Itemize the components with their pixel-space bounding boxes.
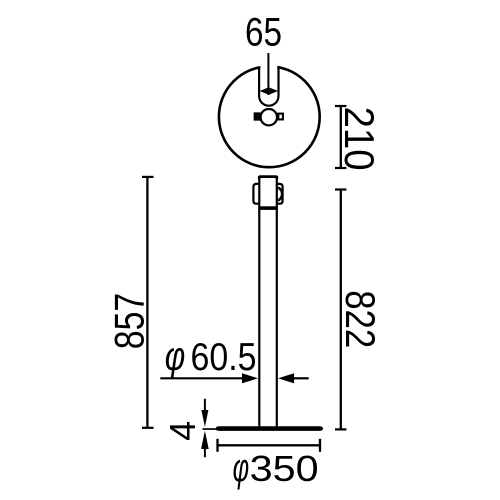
dimension 210 bottom tick (335, 167, 346, 169)
dimension 210 top tick (335, 105, 346, 107)
svg-text:4: 4 (162, 421, 203, 441)
pole upper left edge (258, 176, 260, 427)
dimension phi60.5 shaft right (293, 377, 309, 379)
dimension phi350 left tick (216, 439, 218, 452)
cassette black band (258, 206, 278, 210)
belt cassette right wing (277, 184, 283, 204)
dimension phi60.5 arrow left (242, 373, 258, 383)
pole cross-section small circle (261, 109, 277, 125)
dimension phi60.5 shaft left (160, 377, 243, 379)
slot cutout mask (260, 55, 277, 96)
belt cassette left wing (253, 184, 259, 204)
dimension 822 bottom tick (335, 428, 346, 430)
svg-text:857: 857 (105, 293, 152, 350)
arrow left of 65 dimension (260, 88, 269, 95)
dimension 857 line (146, 177, 148, 428)
dimension 4 lower arrow (up) (201, 431, 209, 449)
dimension 4 upper leader (204, 399, 206, 413)
svg-text:350: 350 (250, 448, 319, 489)
belt end arc in right wing (278, 188, 282, 201)
svg-text:210: 210 (336, 107, 383, 171)
svg-text:φ: φ (165, 333, 186, 379)
svg-text:65: 65 (245, 10, 282, 54)
dimension phi350 right tick (319, 439, 321, 452)
dimension 4 upper arrow (down) (201, 410, 208, 427)
pole upper right edge (276, 176, 278, 427)
dimension 822 top tick (335, 188, 346, 190)
svg-text:60.5: 60.5 (191, 336, 257, 379)
dimension 857 top tick (142, 176, 154, 178)
dimension phi60.5 arrow right (278, 373, 294, 383)
slot U bottom (259, 96, 278, 106)
right tab on small circle (278, 114, 283, 120)
base plate (216, 426, 324, 431)
slot left wall (258, 67, 260, 96)
dimension 4 lower leader (204, 446, 206, 457)
left tab on small circle (255, 113, 260, 119)
dimension phi350 line (218, 444, 321, 446)
sign disc (top head, front view) (219, 66, 320, 167)
dimension 857 bottom tick (142, 427, 154, 429)
slot right wall (277, 67, 279, 96)
dimension 822 line (340, 190, 342, 430)
dimension 210 line (340, 106, 342, 168)
base plate left extension line (203, 428, 217, 430)
arrow right of 65 dimension (269, 88, 278, 95)
pole top cap (259, 177, 277, 179)
leader line for 65 (267, 53, 269, 95)
svg-text:φ: φ (233, 446, 250, 490)
svg-text:822: 822 (337, 290, 384, 348)
